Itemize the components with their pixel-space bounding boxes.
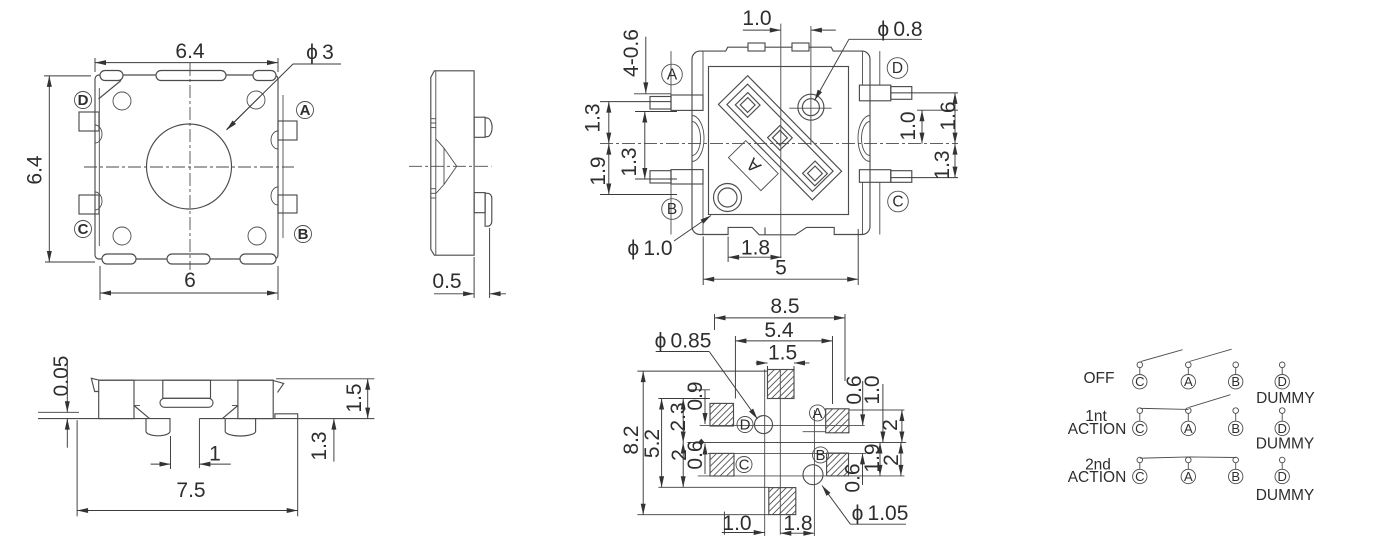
view3 hole vertical axis	[810, 26, 812, 145]
svg-text:ϕ 0.85: ϕ 0.85	[655, 330, 712, 353]
svg-text:ϕ 0.8: ϕ 0.8	[877, 18, 922, 41]
view3 phi1.0 leader	[674, 216, 711, 242]
view5 dim 2 right upper	[901, 410, 903, 443]
svg-text:6.4: 6.4	[175, 40, 205, 63]
svg-text:ACTION: ACTION	[1068, 421, 1127, 438]
svg-text:ϕ 3: ϕ 3	[306, 41, 334, 64]
view3 dim 1.8 bottom	[727, 237, 729, 263]
svg-text:B: B	[1231, 374, 1240, 389]
schematic 2nd row arm (wire)	[1140, 457, 1236, 458]
view5 bottom pad (hatched)	[769, 488, 796, 515]
view5 dim 2 left	[682, 443, 684, 488]
schematic row 1 terminals	[1133, 375, 1147, 389]
view1 dim 6.4 left	[44, 75, 91, 77]
svg-text:C: C	[1135, 469, 1144, 484]
svg-text:A: A	[300, 102, 311, 119]
view3: bottom view outer outline	[692, 47, 870, 235]
svg-text:D: D	[1278, 374, 1287, 389]
view4 dim 1 feet	[170, 436, 172, 469]
svg-text:1: 1	[209, 443, 221, 466]
svg-text:A: A	[1184, 469, 1193, 484]
view5 dim 1.9 right	[879, 443, 881, 476]
schematic row 2 terminals	[1133, 421, 1147, 435]
view5 top pad (hatched)	[768, 370, 795, 399]
view1 pin A (upper-right square)	[278, 121, 297, 140]
view5 hole B phi1.05	[803, 465, 823, 485]
view1 label B	[295, 226, 312, 243]
svg-text:6.4: 6.4	[24, 155, 47, 185]
view5 dim 5.4	[734, 336, 736, 399]
view5 dim 1.0 bottom	[723, 512, 725, 535]
view5 dim 2 right lower	[900, 443, 902, 476]
svg-text:A: A	[1184, 374, 1193, 389]
view5 pad A (hatched)	[826, 409, 849, 433]
view3 pin C (right lower)	[859, 170, 890, 183]
svg-text:1.3: 1.3	[618, 147, 641, 176]
view2 centerline	[409, 165, 492, 167]
svg-text:OFF: OFF	[1084, 370, 1115, 387]
svg-text:7.5: 7.5	[176, 479, 205, 502]
view3 side arcs	[692, 116, 704, 162]
svg-text:D: D	[892, 60, 903, 77]
svg-text:B: B	[815, 447, 825, 464]
view5 dim 0.6 right top	[862, 381, 864, 425]
view5 dim 5.2	[661, 399, 663, 488]
view4 center boss	[163, 380, 211, 398]
svg-text:A: A	[812, 405, 822, 422]
svg-text:B: B	[1231, 469, 1240, 484]
view1 label D	[75, 92, 92, 109]
view3 outer top middle small tabs	[748, 43, 765, 51]
view3 diagonal contact strip outer	[718, 76, 841, 200]
view3 label B	[662, 199, 683, 220]
view4 left hook	[91, 378, 98, 391]
svg-text:0.5: 0.5	[432, 270, 461, 293]
svg-text:1.3: 1.3	[582, 103, 605, 132]
view4 right block	[238, 380, 273, 418]
svg-text:C: C	[1135, 421, 1144, 436]
view3 label D	[887, 58, 908, 79]
svg-text:D: D	[740, 417, 751, 434]
view2 upper pin	[474, 117, 485, 137]
view5 dim 0.6 right lower	[862, 453, 864, 485]
view3 pin B (left lower)	[671, 170, 703, 184]
view5 pad D (hatched)	[710, 403, 734, 426]
view1 pin B (lower-right square)	[278, 195, 297, 213]
view3 dim 1.3 right	[954, 144, 956, 178]
svg-text:D: D	[1278, 469, 1287, 484]
view5 pad B (hatched)	[827, 453, 849, 476]
view3 horizontal centerline	[600, 143, 958, 145]
view2: side profile outline	[431, 71, 474, 255]
svg-text:C: C	[739, 457, 750, 474]
svg-text:5: 5	[775, 257, 787, 280]
svg-text:B: B	[298, 226, 309, 243]
svg-text:B: B	[1231, 421, 1240, 436]
view2 left edge ticks	[431, 118, 436, 120]
view1 bottom edge slots	[102, 254, 136, 264]
svg-text:DUMMY: DUMMY	[1256, 390, 1315, 407]
view4 top edge	[99, 379, 274, 381]
schematic row 3 terminals	[1133, 469, 1147, 483]
view3 phi1.0 hole	[714, 184, 742, 212]
view5 center mark	[698, 439, 704, 446]
view5 pad C (hatched)	[710, 453, 734, 476]
view1 phi3 leader and text	[227, 64, 341, 129]
svg-text:C: C	[78, 221, 89, 238]
svg-text:ϕ 1.0: ϕ 1.0	[627, 237, 672, 260]
view1 center button circle	[147, 124, 232, 209]
view4 dim 7.5	[76, 420, 78, 516]
view5 hole D phi0.85	[755, 416, 773, 434]
svg-text:6: 6	[184, 269, 196, 292]
svg-text:1.0: 1.0	[897, 111, 920, 140]
view5 label C	[736, 457, 752, 473]
view2 lower pin	[474, 193, 485, 213]
view1 top edge right slot	[253, 71, 276, 81]
view3 label A	[662, 64, 683, 85]
view5 label B	[813, 447, 829, 463]
svg-text:0.9: 0.9	[684, 381, 707, 410]
view4: seating base line	[38, 418, 171, 420]
view1 centerlines	[84, 166, 294, 168]
view1 pin C (lower-left square)	[79, 195, 99, 214]
svg-text:D: D	[78, 92, 89, 109]
view1 side bumps	[95, 125, 102, 143]
svg-text:1.5: 1.5	[768, 342, 797, 365]
svg-text:C: C	[892, 194, 903, 211]
view3 inner square	[709, 67, 849, 215]
svg-text:1.6: 1.6	[937, 101, 960, 130]
svg-text:DUMMY: DUMMY	[1256, 487, 1315, 504]
view3 pin A (left upper)	[671, 95, 703, 110]
view1 top-left corner chamfer slot	[100, 71, 123, 81]
view1 corner circles	[113, 92, 131, 110]
view5 dim 1.5	[767, 366, 769, 370]
view1 dim 6 bottom	[99, 266, 101, 300]
view4 right step	[275, 414, 298, 419]
view4 chamfers	[134, 406, 150, 419]
view2 stem profile	[436, 139, 457, 194]
svg-text:1.3: 1.3	[931, 150, 954, 179]
view3 bottom trapezoid divider	[764, 227, 766, 234]
view3 dim 1.9 left outer	[608, 144, 610, 195]
view4 dim 1.5 right	[276, 378, 374, 380]
view1 label C	[75, 221, 92, 238]
schematic OFF row arms (wires)	[1141, 350, 1183, 362]
view3 dim 1.3 left outer	[608, 102, 610, 144]
view5 dim 8.2	[642, 371, 644, 515]
svg-text:1.9: 1.9	[587, 156, 610, 185]
svg-text:1.8: 1.8	[741, 237, 770, 260]
view3 phi0.8 leader	[849, 38, 922, 40]
view5 label A	[810, 405, 826, 421]
svg-text:1.5: 1.5	[343, 383, 366, 412]
svg-text:A: A	[1184, 421, 1193, 436]
svg-text:C: C	[1135, 374, 1144, 389]
view3 left extension lines	[634, 93, 671, 95]
svg-text:5.4: 5.4	[764, 319, 794, 342]
svg-text:0.05: 0.05	[50, 356, 73, 397]
svg-text:1.8: 1.8	[783, 512, 812, 535]
svg-text:1.0: 1.0	[742, 7, 771, 30]
view5 trace lines	[700, 424, 865, 426]
view1 top edge center slot	[156, 71, 226, 81]
view2 cover line	[435, 71, 437, 255]
svg-text:0.6: 0.6	[684, 440, 707, 469]
view5 dim 8.5	[714, 314, 716, 330]
svg-text:8.5: 8.5	[770, 295, 799, 318]
svg-text:B: B	[667, 201, 677, 218]
view3 dim 5 bottom	[702, 237, 704, 286]
view1 pin D (upper-left square)	[79, 112, 99, 131]
view5 dim 2.3	[682, 399, 684, 443]
view5 dim 0.9	[704, 390, 706, 424]
view3 dim 1.0 top	[743, 29, 781, 31]
svg-text:8.2: 8.2	[620, 425, 643, 454]
svg-text:1.3: 1.3	[308, 431, 331, 460]
view4 right hook	[273, 381, 284, 393]
view5 dim 1.8 bottom	[780, 532, 814, 534]
view4 left block	[99, 380, 134, 418]
view3 right extension lines	[891, 92, 958, 94]
view5 left ext lines	[637, 370, 767, 372]
view5 phi0.85 leader	[656, 351, 710, 353]
view5 dim 0.6 left	[704, 444, 706, 475]
schematic 1nt row arms (wires)	[1140, 408, 1189, 409]
view3 rotated A marker	[728, 141, 778, 191]
svg-text:4-0.6: 4-0.6	[620, 29, 643, 77]
view1 inner cover edge lines	[98, 88, 100, 246]
view3 dim 1.0 right inner	[921, 110, 923, 143]
view1: switch top view body outline	[95, 75, 278, 259]
view4 left foot	[146, 419, 170, 436]
view2 dim 0.5	[473, 257, 475, 298]
view3 dim 1.3 left inner	[644, 112, 646, 180]
view1 label A	[297, 102, 314, 119]
svg-text:A: A	[667, 67, 678, 84]
svg-text:1.0: 1.0	[722, 512, 751, 535]
view3 phi0.8 hole	[798, 94, 824, 120]
svg-text:2: 2	[879, 419, 902, 431]
view3 label C	[888, 191, 909, 212]
view5 dim 1.0 right top	[882, 384, 884, 443]
view1 dim 6.4 top	[94, 58, 96, 72]
svg-text:ACTION: ACTION	[1068, 469, 1127, 486]
svg-text:5.2: 5.2	[641, 429, 664, 458]
svg-text:D: D	[1278, 421, 1287, 436]
view5 label D	[737, 417, 753, 433]
svg-text:ϕ 1.05: ϕ 1.05	[852, 502, 909, 525]
view3 dim 1.6 right	[954, 93, 956, 144]
svg-text:0.6: 0.6	[842, 463, 865, 492]
view4 right foot	[225, 419, 255, 436]
view3 center vertical axis	[780, 24, 782, 258]
view5 phi1.05 leader	[822, 486, 850, 525]
view3 pin D (right upper)	[859, 85, 890, 101]
view4 dim 1.3 right	[333, 419, 335, 462]
svg-text:DUMMY: DUMMY	[1256, 435, 1315, 452]
svg-text:1.0: 1.0	[861, 375, 884, 404]
